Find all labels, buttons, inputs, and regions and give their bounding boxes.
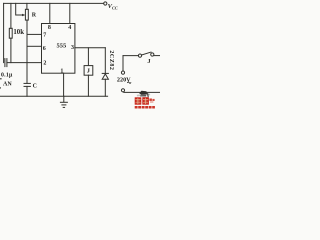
svg-text:6: 6 xyxy=(43,46,46,52)
svg-text:2: 2 xyxy=(43,60,46,66)
terminal Vcc circle xyxy=(104,2,107,5)
wire output top xyxy=(122,56,124,71)
switch contact circle left xyxy=(138,54,141,57)
capacitor C lead xyxy=(26,86,28,96)
wire pin1 xyxy=(63,73,65,96)
svg-text:VCC: VCC xyxy=(108,3,118,10)
switch contact circle right xyxy=(151,53,154,56)
hat dome xyxy=(140,94,146,97)
potentiometer wiper arrowhead xyxy=(22,14,25,17)
red character 1 xyxy=(135,97,142,104)
svg-text:1: 1 xyxy=(60,68,63,74)
wire switch right xyxy=(154,55,160,57)
diode triangle xyxy=(102,74,108,79)
bottom tiny red text row xyxy=(135,106,155,109)
wire pin7 stub xyxy=(27,33,42,35)
svg-text:C: C xyxy=(33,84,37,90)
terminal output top circle xyxy=(121,71,124,74)
wire left rail xyxy=(3,3,5,62)
pushbutton AN contact marks (clipped at page edge) xyxy=(0,78,1,80)
potentiometer R body xyxy=(25,9,28,20)
wire node vertical xyxy=(26,20,28,83)
IC U1 555 timer box xyxy=(42,24,75,74)
red character 2 xyxy=(142,97,149,105)
ground symbol xyxy=(63,96,65,102)
resistor 10k leads xyxy=(10,3,12,28)
capacitor 0.1u plates xyxy=(4,59,6,67)
svg-text:0.1μ: 0.1μ xyxy=(1,73,13,79)
svg-text:AN: AN xyxy=(3,82,12,88)
hat brim shadow xyxy=(137,94,150,97)
wire relay to ground xyxy=(87,75,89,96)
svg-text:4: 4 xyxy=(68,25,71,31)
wire output bottom xyxy=(124,91,160,93)
svg-text:2CZ82: 2CZ82 xyxy=(108,50,114,70)
wire pin8 xyxy=(49,3,51,23)
watermark logo (red stamp, bottom-right) xyxy=(135,91,155,109)
wire pin6 stub xyxy=(27,45,42,47)
diode 2CZ82 top lead xyxy=(104,48,106,74)
svg-text:555: 555 xyxy=(57,43,68,50)
svg-text:J: J xyxy=(87,68,90,75)
diode cathode bar xyxy=(102,72,108,74)
capacitor C plates xyxy=(24,82,30,84)
wire switch left xyxy=(123,55,138,57)
switch blade xyxy=(142,52,151,55)
svg-text:R: R xyxy=(32,12,37,18)
svg-text:J: J xyxy=(147,58,150,65)
small red text right xyxy=(149,99,152,101)
svg-text:3: 3 xyxy=(71,45,74,51)
terminal output bottom circle xyxy=(121,89,124,92)
potentiometer wiper wire xyxy=(16,3,24,15)
char inner strokes xyxy=(135,98,148,104)
svg-text:8: 8 xyxy=(48,25,51,31)
wire node y62 xyxy=(7,62,42,64)
hat tassel xyxy=(147,92,149,97)
wire pin4 xyxy=(69,3,71,23)
resistor 10k body xyxy=(9,28,12,38)
wire top rail xyxy=(4,2,104,4)
relay coil J box xyxy=(84,66,93,76)
svg-text:10k: 10k xyxy=(13,29,24,36)
svg-text:7: 7 xyxy=(43,32,46,38)
diode bottom lead xyxy=(104,79,106,96)
wire relay drop xyxy=(87,48,89,66)
wire bottom rail xyxy=(1,95,108,97)
potentiometer R leads xyxy=(26,3,28,9)
hat board xyxy=(139,91,147,96)
wire pin3 xyxy=(75,47,105,49)
